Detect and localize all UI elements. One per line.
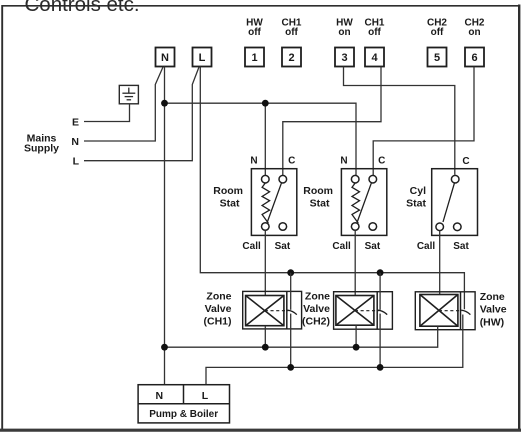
junction: rail B / CH2 switch <box>377 364 384 371</box>
pump and boiler pin labels N L <box>149 390 218 420</box>
junction: rail A / CH2 motor <box>353 344 360 351</box>
wire: room stat 2 Call to CH2 valve motor <box>354 230 356 295</box>
svg-text:C: C <box>462 156 469 167</box>
svg-text:C: C <box>288 155 295 166</box>
junction: rail B / CH1 switch <box>287 364 294 371</box>
svg-text:(HW): (HW) <box>480 316 505 328</box>
junction: live rail / CH1 valve switch <box>287 269 294 276</box>
terminal label CH1 off (above terminal 2) <box>281 17 301 38</box>
svg-text:on: on <box>468 27 480 38</box>
svg-text:off: off <box>431 27 444 38</box>
cylinder stat <box>432 169 478 236</box>
room stat 1 <box>251 169 296 236</box>
svg-text:Cyl: Cyl <box>410 185 426 197</box>
terminal 5 <box>428 48 447 67</box>
junction: rail A / CH1 motor <box>262 344 269 351</box>
svg-text:Room: Room <box>303 185 333 197</box>
wire: terminal 3 to cyl stat C <box>344 67 455 175</box>
zone valve CH2 label <box>302 290 330 327</box>
svg-text:5: 5 <box>434 52 440 64</box>
earth symbol (protective earth in box) <box>119 85 138 103</box>
terminal 2 <box>282 48 301 67</box>
wire L: mains L line to L terminal (diagonal riser) <box>84 67 199 161</box>
wire: cyl stat Call to HW valve motor <box>439 231 441 295</box>
room stat 2 pin labels N C Call Sat <box>332 155 385 252</box>
terminal 3 <box>335 48 354 67</box>
mains supply label <box>24 133 59 155</box>
zone valve CH1 label <box>204 290 232 327</box>
svg-text:Zone: Zone <box>480 291 505 303</box>
terminal label CH1 off (above terminal 4) <box>364 17 384 38</box>
terminal label HW on (above terminal 3) <box>336 17 353 38</box>
svg-text:(CH1): (CH1) <box>204 315 232 327</box>
terminal label CH2 on (above terminal 6) <box>464 17 484 38</box>
svg-text:L: L <box>202 390 209 402</box>
svg-text:off: off <box>248 27 261 38</box>
terminal 4 <box>365 48 384 67</box>
svg-text:E: E <box>72 117 79 129</box>
svg-text:Sat: Sat <box>365 241 381 252</box>
svg-text:3: 3 <box>341 52 347 64</box>
terminal L (programmer terminal block) <box>193 48 212 67</box>
svg-text:Stat: Stat <box>310 198 330 210</box>
svg-text:N: N <box>71 136 79 148</box>
pump and boiler unit <box>138 385 229 423</box>
wire: room stat 1 Call to CH1 valve motor <box>264 230 266 295</box>
svg-text:Supply: Supply <box>24 143 59 155</box>
svg-text:Sat: Sat <box>453 241 469 252</box>
wire: N terminal main drop (N bus down to pump) <box>164 67 166 385</box>
cyl stat pin labels C Call Sat <box>417 156 470 252</box>
junction: N rail / stat 1 branch <box>262 100 269 107</box>
svg-text:Stat: Stat <box>406 198 426 210</box>
terminal N (programmer terminal block) <box>156 48 175 67</box>
wire: CH2 valve aux switch drop (live in / switched out to rail B) <box>379 273 381 368</box>
terminal 6 <box>465 48 484 67</box>
svg-text:2: 2 <box>288 52 294 64</box>
zone valve HW <box>415 292 475 330</box>
wire: CH1 valve motor neutral out <box>264 326 266 348</box>
room stat 2 label <box>303 185 333 210</box>
wire: N rail branch to room stat 1 N <box>264 103 266 175</box>
svg-text:Zone: Zone <box>305 290 330 302</box>
wire: terminal 4 to room stat 1 C <box>283 67 381 176</box>
svg-text:C: C <box>378 155 385 166</box>
svg-text:N: N <box>250 155 257 166</box>
svg-text:N: N <box>340 155 347 166</box>
zone valve CH2 <box>334 292 393 330</box>
svg-text:Room: Room <box>213 185 243 197</box>
wire: HW valve aux switch out to rail B <box>206 315 463 385</box>
svg-text:Valve: Valve <box>303 303 330 315</box>
junction: N bus / N rail <box>161 100 168 107</box>
svg-text:Call: Call <box>332 241 351 252</box>
zone valve CH1 <box>243 291 302 329</box>
wire E: mains E to earth symbol <box>84 104 130 122</box>
wire: HW valve motor neutral out to rail A <box>165 326 438 347</box>
svg-text:off: off <box>368 27 381 38</box>
svg-text:on: on <box>338 27 350 38</box>
junction: live rail / CH2 valve switch <box>377 269 384 276</box>
wire: CH2 valve motor neutral out <box>355 325 357 347</box>
svg-text:Pump & Boiler: Pump & Boiler <box>149 409 218 420</box>
wire: N rail to room stats <box>165 103 357 175</box>
terminal 1 <box>245 48 264 67</box>
svg-text:N: N <box>161 52 169 64</box>
svg-text:Stat: Stat <box>220 198 240 210</box>
junction: rail A / N bus <box>161 344 168 351</box>
svg-text:Zone: Zone <box>206 290 231 302</box>
wire N: mains N line to N terminal (diagonal riser) <box>84 67 163 141</box>
terminal label CH2 off (above terminal 5) <box>427 17 447 38</box>
terminal label HW off (above terminal 1) <box>246 17 263 38</box>
svg-text:6: 6 <box>471 52 477 64</box>
cyl stat label <box>406 185 426 210</box>
svg-text:Controls etc.: Controls etc. <box>25 0 140 16</box>
svg-text:Call: Call <box>242 241 261 252</box>
svg-text:Valve: Valve <box>480 304 507 316</box>
svg-text:Sat: Sat <box>275 241 291 252</box>
svg-text:L: L <box>73 155 80 167</box>
room stat 2 <box>341 169 386 236</box>
svg-text:Valve: Valve <box>205 303 232 315</box>
room stat 1 label <box>213 185 243 210</box>
svg-text:off: off <box>285 27 298 38</box>
svg-text:N: N <box>156 390 164 402</box>
wire: L terminal drop to live rail <box>200 67 464 310</box>
svg-text:4: 4 <box>371 52 378 64</box>
zone valve HW label <box>480 291 507 328</box>
wire: terminal 6 to room stat 2 C <box>373 67 474 176</box>
room stat 1 pin labels N C Call Sat <box>242 155 295 252</box>
svg-text:L: L <box>199 52 206 64</box>
svg-text:(CH2): (CH2) <box>302 315 330 327</box>
svg-text:Call: Call <box>417 241 436 252</box>
svg-text:1: 1 <box>251 52 257 64</box>
wire: CH1 valve aux switch drop (live in / switched out to rail B) <box>290 273 292 368</box>
